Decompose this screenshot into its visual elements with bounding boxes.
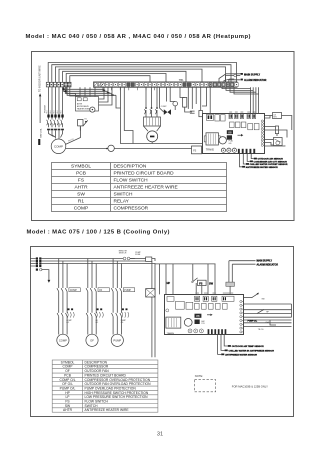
- svg-text:88: 88: [228, 130, 232, 134]
- svg-text:31: 31: [157, 432, 163, 438]
- svg-text:TO INDOOR UNIT WIRE: TO INDOOR UNIT WIRE: [38, 65, 41, 92]
- mid components (resistor, capacitor): [173, 98, 203, 117]
- main supply / alarm indicator labels: [226, 73, 267, 82]
- svg-text:PUMP: PUMP: [124, 290, 131, 292]
- svg-text:FOR MAC100B & 125B ONLY: FOR MAC100B & 125B ONLY: [232, 384, 268, 388]
- PCB bottom sensor labels: [240, 154, 288, 169]
- FS switch box: [198, 280, 214, 285]
- svg-text:FUSE: FUSE: [135, 254, 141, 256]
- switch feed wires: [155, 264, 216, 295]
- svg-text:Model : MAC 075 / 100 / 125 B: Model : MAC 075 / 100 / 125 B (Cooling O…: [27, 230, 170, 236]
- svg-text:TB O/L: TB O/L: [258, 329, 264, 331]
- main supply / alarm labels d2: [226, 260, 278, 295]
- PCB2 bottom sensor labels: [218, 334, 275, 356]
- svg-text:ANTIFREEZE HEATER WIRE: ANTIFREEZE HEATER WIRE: [85, 408, 130, 412]
- svg-text:FLOW SWITCH: FLOW SWITCH: [114, 178, 149, 184]
- svg-text:SYMBOL: SYMBOL: [71, 164, 91, 170]
- left phase wires: [46, 87, 79, 115]
- top wire bundle: [48, 63, 242, 83]
- compressor COMP: [51, 127, 80, 154]
- svg-text:FS: FS: [193, 149, 196, 152]
- AHTR antifreeze heater box: [76, 87, 99, 112]
- svg-text:AHTR: AHTR: [63, 408, 73, 412]
- svg-text:ANTIFREEZE WATER SENSOR: ANTIFREEZE WATER SENSOR: [225, 353, 257, 356]
- svg-text:ANTIFREEZE: ANTIFREEZE: [77, 105, 90, 108]
- diagram 1 outer border: [32, 52, 295, 221]
- capacitors + valve symbol: [144, 106, 171, 117]
- table 1: [52, 163, 227, 212]
- svg-text:COMPRESSOR: COMPRESSOR: [114, 206, 149, 212]
- svg-text:B/B COIL: B/B COIL: [41, 127, 43, 137]
- svg-text:O/L: O/L: [121, 322, 124, 324]
- svg-text:CHILLED WATER OUT/RET SENSOR: CHILLED WATER OUT/RET SENSOR: [250, 163, 288, 166]
- svg-text:FS: FS: [199, 282, 203, 285]
- compressor contact symbols: [47, 115, 64, 139]
- compressor branch COMP: [57, 259, 81, 347]
- svg-text:COMP: COMP: [74, 206, 88, 212]
- svg-text:R1: R1: [85, 118, 87, 120]
- svg-text:ALARM INDICATOR: ALARM INDICATOR: [257, 263, 279, 266]
- title: Model : MAC 040 / 050 / 058 AR , M4AC 040 / 050 / 058 AR (Heatpump): [26, 34, 251, 40]
- terminal strip TB1: [46, 78, 238, 88]
- svg-text:CONDENSER AIR OUT SENSOR: CONDENSER AIR OUT SENSOR: [254, 160, 288, 163]
- title: Model : MAC 075 / 100 / 125 B (Cooling Only): [27, 230, 170, 236]
- svg-text:SW: SW: [77, 192, 85, 198]
- terminal block TB: [30, 257, 42, 271]
- svg-text:COMP: COMP: [54, 145, 63, 149]
- svg-text:COMP: COMP: [59, 339, 67, 343]
- svg-text:OUTDOOR AIR TEMP SENSOR: OUTDOOR AIR TEMP SENSOR: [232, 345, 264, 348]
- svg-text:R1: R1: [78, 199, 84, 205]
- PCB U2 printed circuit board: [165, 293, 244, 335]
- note + dashed legend box: [195, 374, 269, 392]
- left margin vertical note + arrow: [38, 65, 46, 145]
- svg-text:MAIN SUPPLY: MAIN SUPPLY: [244, 73, 261, 76]
- earth wire + arrow: [41, 270, 50, 283]
- svg-text:AHTR: AHTR: [77, 102, 83, 105]
- svg-text:DESCRIPTION: DESCRIPTION: [114, 164, 147, 170]
- flow switch contact: [192, 278, 198, 295]
- switch HP label: [167, 282, 171, 285]
- svg-text:CHILLED WATER IN /ANTIFREEZE S: CHILLED WATER IN /ANTIFREEZE SENSOR: [229, 349, 275, 352]
- pump branch PUMP: [111, 259, 134, 347]
- table 2: [52, 360, 158, 412]
- three-phase bus wires: [41, 259, 155, 358]
- svg-text:TB1: TB1: [179, 78, 184, 82]
- svg-text:PRINTED CIRCUIT BOARD: PRINTED CIRCUIT BOARD: [114, 171, 175, 177]
- svg-text:ANTIFREEZE HEATER WIRE: ANTIFREEZE HEATER WIRE: [114, 185, 178, 191]
- svg-text:OUTDOOR AIR SENSOR: OUTDOOR AIR SENSOR: [258, 158, 284, 161]
- svg-text:SW: SW: [209, 282, 214, 285]
- svg-text:O/L: O/L: [95, 322, 98, 324]
- flow switch FS + aux motor: [66, 145, 202, 154]
- contactor coil 52C: [146, 289, 155, 297]
- svg-text:040: 040: [229, 143, 232, 145]
- strip-to-PCB wires: [202, 87, 259, 113]
- svg-text:HP: HP: [167, 282, 171, 285]
- svg-text:SWITCH: SWITCH: [119, 253, 127, 255]
- svg-text:O/L: O/L: [66, 322, 69, 324]
- svg-text:COMP: COMP: [70, 290, 77, 292]
- svg-text:ALARM INDICATOR: ALARM INDICATOR: [244, 79, 267, 82]
- svg-text:OF: OF: [90, 339, 94, 343]
- svg-text:SW: SW: [262, 299, 265, 301]
- svg-text:TRANS: TRANS: [206, 149, 215, 152]
- outdoor fan branch OF: [86, 259, 110, 347]
- right sensor components: [265, 113, 292, 147]
- mid connection wires: [63, 87, 259, 143]
- svg-text:FS: FS: [78, 178, 84, 184]
- relay R1: [78, 118, 88, 130]
- page number 31: [157, 432, 163, 438]
- svg-text:HEATER WIRE: HEATER WIRE: [77, 108, 91, 111]
- svg-text:PUMP O/L: PUMP O/L: [248, 321, 258, 323]
- svg-text:SWITCH: SWITCH: [114, 192, 133, 198]
- svg-text:PUMP: PUMP: [113, 339, 121, 343]
- svg-text:NOTE:: NOTE:: [195, 374, 203, 378]
- svg-text:COMP: COMP: [161, 106, 167, 108]
- svg-text:MAIN SUPPLY: MAIN SUPPLY: [257, 260, 273, 263]
- four-way valve + PUMP motor: [144, 117, 161, 144]
- svg-text:88: 88: [196, 314, 200, 318]
- svg-text:RELAY: RELAY: [114, 199, 130, 205]
- svg-text:Model : MAC 040 / 050 / 058 AR: Model : MAC 040 / 050 / 058 AR , M4AC 04…: [26, 34, 251, 40]
- svg-text:PCB: PCB: [76, 171, 86, 177]
- remote switch + fuse: [119, 250, 155, 261]
- svg-text:ANTIFREEZE WATER SENSOR: ANTIFREEZE WATER SENSOR: [246, 166, 278, 169]
- svg-text:TRANS: TRANS: [167, 332, 175, 335]
- PCB U1 printed circuit board: [203, 112, 266, 154]
- PCB2 right wiring: [244, 293, 292, 331]
- svg-text:AHTR: AHTR: [74, 185, 88, 191]
- diagram 2 outer border: [31, 247, 294, 417]
